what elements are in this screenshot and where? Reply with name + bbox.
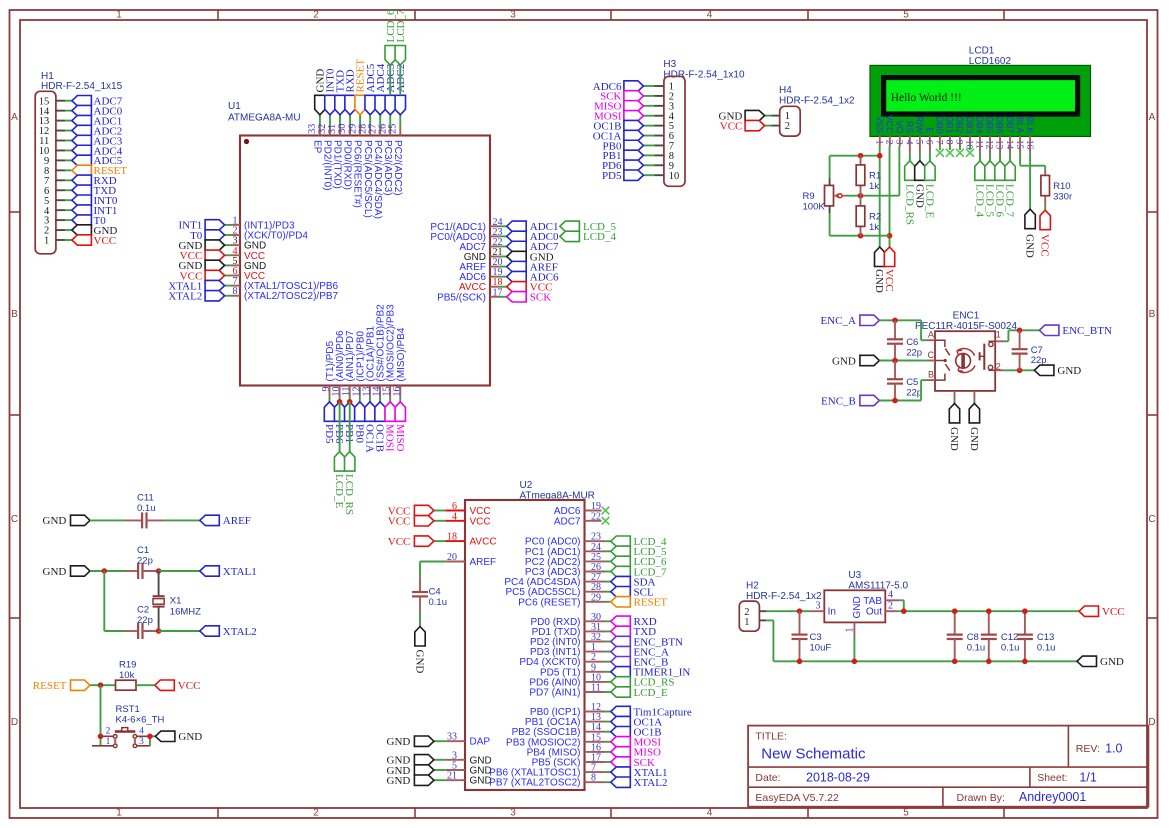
U1 pin 4 stub [225,254,231,256]
U2 pin 15 stub [585,741,606,743]
net flag OC1B at U1 pin 14 [375,402,385,422]
GND rail wire [773,660,1077,662]
net flag GND at U1 pin 3 [205,240,225,250]
ENC1 button symbol [983,344,985,370]
svg-text:4: 4 [707,808,713,819]
U2 pin 8 stub [585,781,606,783]
svg-text:4: 4 [139,727,144,737]
svg-text:GND: GND [832,355,856,367]
net flag LCD_7 [395,46,405,66]
svg-text:RESET: RESET [634,597,668,609]
net flag AREF at U1 pin 20 [507,261,527,271]
frame row ticks right [1147,211,1157,213]
junction left rail top [102,568,108,574]
svg-text:0.1u: 0.1u [1001,643,1020,654]
wire ENC_A to pin A [879,319,921,321]
junction C8 top [952,608,958,614]
U2 pin 28 stub [585,591,606,593]
U2 pin 16 stub [585,751,606,753]
svg-text:11: 11 [591,683,601,694]
wire LCD pin1 down to GND flag [879,146,881,247]
svg-text:5: 5 [903,10,909,21]
IC U1 body [240,136,490,386]
svg-text:11: 11 [974,140,984,149]
svg-text:VCC: VCC [885,114,895,134]
svg-text:2: 2 [888,601,893,612]
svg-text:PD5: PD5 [602,170,622,182]
svg-text:C5: C5 [906,377,918,388]
U1 pin 9 stub [329,386,331,397]
U2 pin 21 stub [434,779,445,781]
net flag VCC at H4 pin 2 [745,120,765,130]
svg-text:R2: R2 [869,212,881,223]
crystal X1 leads [158,571,160,596]
LCD1 pin 7 stub [939,136,941,146]
net flag ENC_BTN [1039,325,1059,335]
IC U1 pin-1 marker dot [244,139,249,144]
svg-text:LCD_4: LCD_4 [583,231,617,243]
title block outer box [748,726,1148,807]
svg-text:MISO: MISO [394,424,406,452]
svg-text:C6: C6 [906,337,918,348]
LCD1 pin 2 stub [889,136,891,146]
svg-text:29: 29 [591,592,601,603]
net flag ADC3 at U1 pin 26 [385,95,395,115]
LCD1 pin 8 stub [949,136,951,146]
svg-text:U1: U1 [228,101,241,112]
svg-text:VCC: VCC [883,269,895,292]
connector H4 body [780,106,801,136]
wire left rail down [103,571,105,631]
svg-text:8: 8 [591,773,596,784]
svg-text:3: 3 [139,737,144,747]
net flag TXD at H1 pin 6 [72,185,92,195]
ENC1 bottom pin stubs [954,391,956,399]
svg-text:HDR-F-2.54_1x2: HDR-F-2.54_1x2 [779,96,855,107]
svg-text:10: 10 [964,140,974,150]
net flag RXD at U1 pin 30 [345,95,355,115]
svg-text:PC2/(ADC2): PC2/(ADC2) [392,140,403,196]
net flag LCD_5 floating [560,221,580,231]
net flag LCD_RS at U2 pin 10 [611,677,631,687]
U2 pin 10 stub [585,681,606,683]
LCD1 screen [886,80,1075,112]
wire RST1 right side to GND [149,736,151,746]
svg-text:12: 12 [984,140,994,150]
net flag GND right of RST1 [155,731,175,741]
U2 pin 1 stub [585,651,606,653]
net flag RXD at U2 pin 30 [611,616,631,626]
wire R19 to VCC [136,684,155,686]
pushbutton RST1 pin 1 lead and circle [92,745,113,747]
net flag MISO at U1 pin 16 [395,402,405,422]
U1 pin 11 stub [349,386,351,397]
svg-text:1/1: 1/1 [1079,770,1096,784]
svg-text:22p: 22p [906,348,922,359]
svg-text:EasyEDA V5.7.22: EasyEDA V5.7.22 [755,792,839,804]
junction RESET node [98,682,104,688]
U1 pin 26 stub [389,115,391,126]
U2 pin 2 stub [585,661,606,663]
wire C1 to XTAL1 [159,570,200,572]
net flag RESET [71,680,91,690]
svg-text:PD2/(INT0): PD2/(INT0) [322,140,333,191]
svg-text:TAB: TAB [863,596,882,607]
net flag GND at H4 pin 1 [745,110,765,120]
svg-text:C8: C8 [967,632,979,643]
wire GND to pin C [879,360,921,362]
svg-text:1: 1 [116,808,122,819]
net flag GND left of ENC1 [860,355,880,365]
wire C11 to AREF [164,519,200,521]
LCD1 pin 12 stub [989,136,991,152]
U1 pin 16 stub [399,386,401,397]
LCD1 pin 5 stub [919,136,921,152]
junction LCD pin2 bottom rail [887,233,893,239]
svg-text:A: A [1149,112,1156,123]
net flag T0 at H1 pin 3 [72,215,92,225]
svg-text:DB5: DB5 [985,116,995,134]
net flag OC1A at U1 pin 13 [365,402,375,422]
svg-text:10uF: 10uF [810,643,832,654]
junction C7 bottom [1017,368,1023,374]
resistor R1 leads [860,156,862,165]
potentiometer R9 body [825,185,834,206]
svg-text:VCC: VCC [1039,234,1051,257]
junction C12 bottom [986,659,992,665]
H1 pin 2 lead [56,229,65,231]
svg-text:PD7 (AIN1): PD7 (AIN1) [529,688,580,699]
svg-text:0.1u: 0.1u [137,503,156,514]
H3 pin 10 lead [655,174,664,176]
svg-text:0.1u: 0.1u [967,643,986,654]
net flag ENC_A [860,315,880,325]
svg-text:GND: GND [43,515,67,527]
svg-text:RS: RS [905,121,915,134]
svg-text:2: 2 [785,121,790,132]
LCD1 pin 4 stub [909,136,911,152]
LCD1 pin 15 stub [1019,136,1021,152]
net flag LCD_4 floating [560,231,580,241]
net flag TXD at U1 pin 31 [335,95,345,115]
svg-text:9: 9 [954,140,964,145]
junction C12 top [986,608,992,614]
net flag ADC6 at U1 pin 19 [507,271,527,281]
title block DrawnBy divider [942,787,944,807]
net flag XTAL1 [200,566,220,576]
net flag RESET at U1 pin 29 [355,95,365,115]
svg-text:22p: 22p [137,556,153,567]
svg-text:DB2: DB2 [955,116,965,134]
svg-text:Drawn By:: Drawn By: [957,792,1005,804]
svg-text:TITLE:: TITLE: [755,731,787,743]
no-connect X marks LCD pins 7-10 [936,149,944,157]
wire C4 to GND flag [419,612,421,627]
U1 pin 29 stub [359,115,361,126]
net flag VCC at U1 pin 18 [507,282,527,292]
U1 pin 14 stub [379,386,381,397]
potentiometer R9 leads [829,178,831,185]
pushbutton RST1 plunger [115,730,136,732]
junction C13 bottom [1022,659,1028,665]
svg-text:DB4: DB4 [975,116,985,134]
wire R9 top lead [829,156,831,178]
svg-text:BLK: BLK [1025,116,1035,133]
svg-text:GND: GND [1024,234,1036,258]
wire ENC_B to pin B [879,400,921,402]
svg-text:GND: GND [387,775,411,787]
net flag MOSI at U2 pin 15 [611,737,631,747]
svg-text:VCC: VCC [470,516,491,527]
wire pin10 to LCD_E flag [339,402,341,452]
svg-text:3: 3 [510,808,516,819]
junction C6 top [892,318,898,324]
svg-text:DB0: DB0 [935,116,945,134]
wire bottom rail [830,235,890,237]
resistor R19 body [116,680,137,690]
svg-text:K4-6×6_TH: K4-6×6_TH [116,715,165,726]
junction C7 top [1017,328,1023,334]
junction R1 top [858,153,864,159]
svg-text:VCC: VCC [178,680,201,692]
U1 pin 1 stub [225,224,231,226]
ENC1 pin 1 contact circle [989,342,993,346]
svg-text:BLA: BLA [1015,116,1025,133]
U2 pin 23 stub [585,540,606,542]
junction C5 bottom [892,398,898,404]
wire R9 wiper to pin3 [846,195,899,197]
svg-text:3: 3 [894,140,904,145]
LCD1 pin 1 stub [879,136,881,146]
junction C3 top [797,608,803,614]
svg-text:GND: GND [948,427,960,451]
svg-text:10k: 10k [119,670,135,681]
net flag PB0 at H3 pin 7 [624,140,644,150]
junction RST1 pin2 [98,734,104,740]
svg-text:DAP: DAP [470,737,491,748]
frame column ticks top [217,10,219,20]
net flag PB1 at U1 pin 11 [345,402,355,422]
U1 pin 28 stub [369,115,371,126]
H1 pin 3 lead [56,219,65,221]
svg-text:7: 7 [934,140,944,145]
svg-text:D: D [1148,717,1155,728]
junction TAB-Out [901,608,907,614]
U1 pin 5 stub [225,264,231,266]
LCD1 pin 10 stub [969,136,971,146]
ENC1 pin B stub [921,379,927,381]
net flag GND at LCD1 pin 5 [915,161,925,181]
svg-text:5: 5 [914,140,924,145]
svg-text:8: 8 [944,140,954,145]
LCD1 pin 14 stub [1009,136,1011,152]
H3 pin 4 lead [655,115,664,117]
net flag GND at ENC1 bottom pin D1 [949,403,959,423]
svg-text:HDR-F-2.54_1x15: HDR-F-2.54_1x15 [41,81,123,92]
pushbutton RST1 pin 4 lead and circle [137,735,150,737]
svg-text:REV:: REV: [1076,743,1100,755]
svg-text:PC5/(ADC5/SCL): PC5/(ADC5/SCL) [362,140,373,218]
U2 pin 27 stub [585,581,606,583]
svg-text:VCC: VCC [388,516,411,528]
svg-text:E: E [925,127,935,133]
U2 pin 32 stub [585,641,606,643]
U1 pin 20 stub [490,266,499,268]
wire C2 to XTAL2 [159,630,200,632]
net flag LCD_RS at LCD1 pin 4 [905,161,915,181]
U1 pin 3 stub [225,244,231,246]
svg-text:A: A [11,112,18,123]
net flag VCC at U2 pin 18 [414,536,434,546]
net flag LCD_E [334,452,344,472]
net flag ADC5 at H1 pin 9 [72,155,92,165]
svg-text:14: 14 [1004,140,1014,150]
junction X1 bottom [156,628,162,634]
svg-text:1.0: 1.0 [1105,742,1122,756]
wire ENC1 pin1 to ENC_BTN [1007,330,1009,341]
svg-text:R10: R10 [1053,181,1070,192]
H3 pin 9 lead [655,164,664,166]
svg-text:1: 1 [44,236,49,247]
U1 pin 2 stub [225,234,231,236]
H1 pin 8 lead [56,169,65,171]
svg-text:PC6/(RESET#): PC6/(RESET#) [352,140,363,208]
U1 pin 10 stub [339,386,341,397]
ENC1 rotation arrows [957,349,975,356]
net flag SCK at H3 pin 2 [624,91,644,101]
LCD1 pin 9 stub [959,136,961,146]
U2 pin 12 stub [585,711,606,713]
svg-text:GND: GND [387,736,411,748]
svg-text:3: 3 [816,601,821,612]
net flag INT0 at U1 pin 32 [325,95,335,115]
net flag SCK at U2 pin 17 [611,757,631,767]
svg-text:LCD_E: LCD_E [634,687,669,699]
H1 pin 4 lead [56,209,65,211]
ENC1 rotary knob circle [956,353,971,368]
svg-text:LCD_7: LCD_7 [1004,184,1016,218]
net flag XTAL1 at U2 pin 7 [611,767,631,777]
wire LCD_6 to pin 26 [389,65,391,95]
U2 pin 24 stub [585,550,606,552]
net flag ADC1 at U1 pin 24 [507,221,527,231]
svg-text:1: 1 [106,737,111,747]
svg-text:2: 2 [313,808,319,819]
wire H2 pin2 to U3 In [770,610,810,612]
net flag XTAL1 at U1 pin 7 [205,280,225,290]
net flag TXD at U2 pin 31 [611,626,631,636]
net flag GND at U1 pin 21 [507,251,527,261]
svg-text:ENC_BTN: ENC_BTN [1062,325,1112,337]
U1 pin 6 stub [225,275,231,277]
svg-text:C12: C12 [1001,632,1018,643]
H1 pin 14 lead [56,110,65,112]
capacitor C3 [799,611,801,634]
U3 pin 4 TAB stub and wire [885,599,900,601]
LCD1 body [870,65,1091,136]
svg-text:22: 22 [591,511,601,522]
H3 pin 1 lead [655,85,664,87]
H4 pin 1 lead [772,115,780,117]
net flag ENC_A at U2 pin 1 [611,646,631,656]
U2 pin 26 stub [585,571,606,573]
svg-text:GND: GND [178,731,202,743]
svg-text:16: 16 [1024,140,1034,150]
wire GND to C11 [90,519,125,521]
capacitor C6 [894,320,896,339]
U2 pin 11 stub [585,691,606,693]
svg-text:C3: C3 [810,632,822,643]
connector H2 body [739,601,759,631]
svg-text:VSS: VSS [875,115,885,133]
resistor R2 leads [860,196,862,206]
svg-text:PC6 (RESET): PC6 (RESET) [518,597,580,608]
net flag GND right of ENC1 [1034,365,1054,375]
svg-text:100K: 100K [803,202,826,213]
svg-text:R9: R9 [803,191,815,202]
ENC1 pin A stub [921,339,927,341]
net flag GND below C4 [415,627,425,647]
svg-text:DB6: DB6 [995,116,1005,134]
svg-text:XTAL2: XTAL2 [634,777,668,789]
U1 pin 31 stub [339,115,341,126]
svg-text:C11: C11 [137,493,154,504]
net flag PB0 at U1 pin 12 [355,402,365,422]
svg-text:10: 10 [669,171,680,182]
wire RESET to R19 [90,684,116,686]
U2 pin 22 stub [585,520,602,522]
U2 pin 14 stub [585,731,606,733]
H1 pin 1 lead [56,239,65,241]
H1 pin 9 lead [56,159,65,161]
svg-text:GND: GND [1057,365,1081,377]
H3 pin 8 lead [655,154,664,156]
svg-text:4: 4 [904,140,914,145]
junction at U1 pin 11 [347,399,353,405]
svg-text:VCC: VCC [94,235,117,247]
net flag GND at U1 pin 5 [205,260,225,270]
svg-text:GND: GND [968,427,980,451]
net flag ADC6 at H3 pin 1 [624,81,644,91]
title block REV divider [1067,726,1069,768]
U2 pin 25 stub [585,560,606,562]
U2 pin 13 stub [585,721,606,723]
LCD1 pin 6 stub [929,136,931,152]
svg-text:AREF: AREF [223,515,251,527]
net flag VCC at U1 pin 6 [205,270,225,280]
svg-text:1k: 1k [869,222,879,233]
svg-text:330r: 330r [1053,192,1072,203]
pushbutton RST1 left contact bar [114,738,116,744]
resistor R10 body [1041,175,1050,195]
ENC1 internal contacts [935,340,945,347]
net flag GND below LCD pin1 [875,247,885,267]
junction RST1 pin4 [147,734,153,740]
net flag LCD_E at LCD1 pin 6 [925,161,935,181]
svg-text:22p: 22p [906,388,922,399]
svg-text:8: 8 [233,286,238,297]
svg-text:DB7: DB7 [1005,116,1015,134]
svg-text:2: 2 [313,10,319,21]
svg-text:LCD_RS: LCD_RS [343,474,355,515]
net flag GND left of C1 [71,566,91,576]
svg-text:13: 13 [994,140,1004,150]
svg-text:VO: VO [895,120,905,133]
svg-text:R19: R19 [119,659,136,670]
U3 pin 3 stub [810,610,824,612]
svg-text:B: B [1149,309,1156,320]
net flag LCD_4 at LCD1 pin 11 [975,161,985,181]
